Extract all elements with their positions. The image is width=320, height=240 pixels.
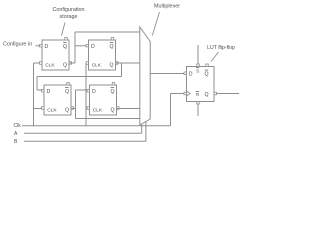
wire: A select riser into mux <box>141 124 143 134</box>
svg-text:Q: Q <box>65 89 69 95</box>
wire: branch to FF4 D <box>76 89 88 91</box>
svg-text:CLK: CLK <box>92 62 102 68</box>
flip-flop FF2 (configuration cell) <box>86 38 118 71</box>
label: Configuration storage <box>52 7 84 20</box>
svg-text:R: R <box>196 92 200 97</box>
svg-text:Q: Q <box>63 62 67 68</box>
svg-text:Q: Q <box>63 44 67 50</box>
wire: FF1 Q over FF2 to mux input 0 <box>75 31 140 33</box>
multiplexer trapezoid <box>140 27 150 125</box>
wire: FF1 CLK to clock column <box>34 62 40 64</box>
wire: FF3 Q to riser <box>71 108 76 110</box>
wire: branch to FF2 D <box>75 45 86 47</box>
wire: FF1 Q to riser <box>70 62 76 64</box>
wire: FF3 Q drop below FF4 <box>75 109 77 119</box>
svg-text:CLK: CLK <box>45 62 55 68</box>
svg-text:D: D <box>92 89 96 95</box>
wire: LUT FF set input (dangling, up) <box>197 45 199 64</box>
B bus line <box>24 140 146 142</box>
wire: riser FF3 Q up to FF4 D <box>75 90 77 109</box>
svg-text:S: S <box>196 68 199 73</box>
leader line from Multiplexer label to mux <box>152 12 159 36</box>
wire: FF3 Q under FF4 to mux input 3 <box>76 118 140 120</box>
wire: left clock column down to Clk bus <box>33 63 35 126</box>
wire: FF2 Q to mux input 1 <box>116 62 140 64</box>
leader line from LUT flip-flop label to flip-flop <box>211 52 219 62</box>
svg-text:Clk: Clk <box>14 123 22 129</box>
wire: FF2 Q branch down <box>121 63 123 77</box>
svg-text:D: D <box>45 44 49 50</box>
wire: LUT FF Q output to right edge <box>217 93 240 95</box>
svg-text:Q: Q <box>111 107 115 113</box>
wire: LUT FF reset input (dangling, down) <box>197 104 199 116</box>
wire: middle clock column FF2 CLK down to Clk bus <box>85 63 87 126</box>
svg-text:LUT flip-flop: LUT flip-flop <box>207 45 235 51</box>
wire: Clk to LUT FF clock pin <box>171 93 185 95</box>
wire: FF4 CLK tap <box>86 108 87 110</box>
leader line from Configuration storage label to FF1 <box>62 23 66 36</box>
svg-text:CLK: CLK <box>47 107 57 113</box>
svg-text:Multiplexer: Multiplexer <box>154 4 180 10</box>
svg-text:Q: Q <box>110 62 114 68</box>
svg-text:Q: Q <box>111 89 115 95</box>
wire: mux output to LUT flip-flop D <box>150 73 184 75</box>
flip-flop FF3 (configuration cell) <box>42 83 74 116</box>
svg-text:D: D <box>47 89 51 95</box>
svg-text:D: D <box>91 44 95 50</box>
svg-text:Configure in: Configure in <box>3 42 32 48</box>
svg-text:Q: Q <box>205 72 209 78</box>
svg-text:Configuration: Configuration <box>52 7 84 13</box>
wire: B select riser into mux <box>145 121 147 141</box>
wire: FF3 CLK tap <box>34 108 42 110</box>
wire: Configure in to FF1 D <box>36 45 40 47</box>
flip-flop FF1 (configuration cell) <box>40 38 72 71</box>
svg-text:CLK: CLK <box>93 107 103 113</box>
wire: return wire to row 2 <box>37 76 122 78</box>
svg-text:B: B <box>14 139 18 145</box>
svg-text:A: A <box>14 131 18 137</box>
svg-text:D: D <box>189 72 193 78</box>
svg-text:Q: Q <box>110 44 114 50</box>
LUT flip-flop U1 <box>184 64 217 104</box>
wire: into FF3 D <box>37 89 42 91</box>
wire: FF4 Q to mux input 2 <box>117 108 140 110</box>
svg-text:Q: Q <box>65 107 69 113</box>
flip-flop FF4 (configuration cell) <box>87 83 119 116</box>
svg-text:storage: storage <box>60 14 78 20</box>
wire: Clk bus riser to LUT FF clock <box>170 94 172 126</box>
A bus line <box>24 132 142 134</box>
Clk bus line <box>22 125 171 127</box>
wire: riser from FF1 Q up to mux input 0 level <box>74 32 76 63</box>
wire: down to FF3 D level <box>36 77 38 91</box>
svg-text:Q: Q <box>205 92 209 98</box>
